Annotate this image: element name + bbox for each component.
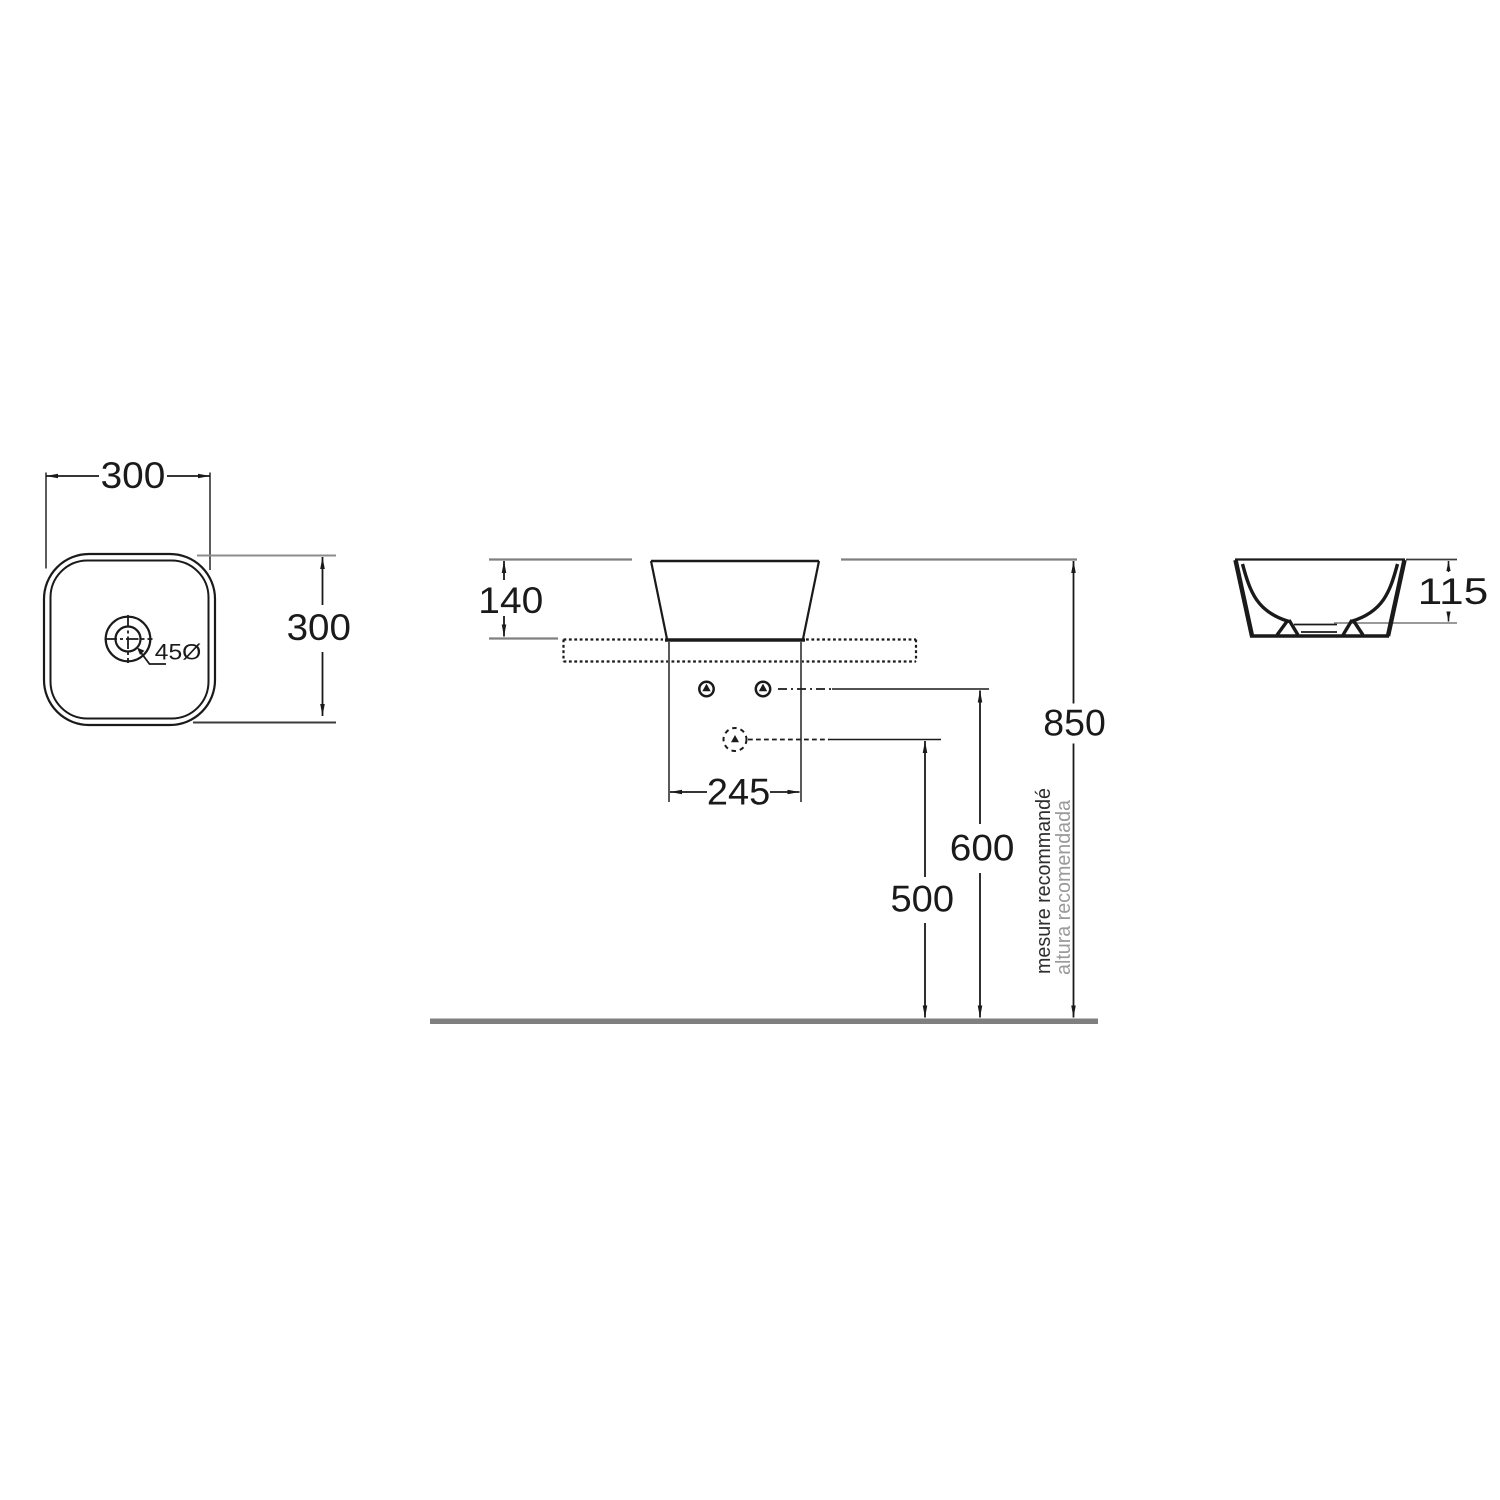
svg-text:500: 500	[891, 879, 955, 920]
svg-text:600: 600	[950, 828, 1015, 869]
svg-text:115: 115	[1418, 571, 1489, 612]
svg-text:altura recomendada: altura recomendada	[1052, 799, 1075, 975]
svg-text:300: 300	[287, 607, 351, 648]
svg-text:140: 140	[478, 580, 543, 621]
svg-text:45Ø: 45Ø	[155, 640, 202, 665]
svg-text:245: 245	[707, 772, 770, 813]
svg-text:300: 300	[101, 455, 166, 496]
svg-text:850: 850	[1043, 703, 1106, 744]
